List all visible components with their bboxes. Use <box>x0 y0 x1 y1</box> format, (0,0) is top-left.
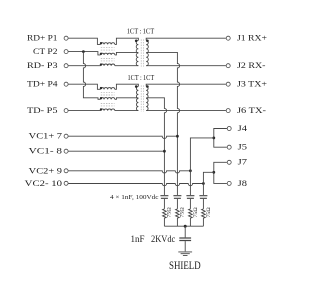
node J7 J8 tie <box>212 171 215 174</box>
wire choke w2 to transformer T1 center tap <box>115 52 139 55</box>
wire CT vertical with hops over P3 P4 <box>83 52 100 100</box>
wire P5 row <box>68 110 100 112</box>
pin J4 <box>227 127 231 131</box>
svg-text:J7: J7 <box>238 157 247 167</box>
svg-text:75Ω: 75Ω <box>168 207 173 218</box>
capacitor C3 <box>186 196 194 199</box>
resistor R2 75ohm <box>176 209 180 226</box>
svg-text:J4: J4 <box>238 123 248 133</box>
ground shield <box>178 252 192 256</box>
svg-text:75Ω: 75Ω <box>181 207 186 218</box>
svg-text:J5: J5 <box>238 142 247 152</box>
svg-text:TD+ P4: TD+ P4 <box>27 79 58 89</box>
pin 10 <box>64 181 68 185</box>
wire T2 secondary top to J3 <box>146 84 226 86</box>
svg-text:SHIELD: SHIELD <box>169 258 201 272</box>
choke T2 core dashes <box>101 93 115 106</box>
wire VC2- row <box>68 184 203 186</box>
svg-text:J8: J8 <box>238 178 247 188</box>
choke T1 winding 3 <box>101 64 115 66</box>
wire P2 row to choke <box>68 52 100 55</box>
capacitor C5 1nF 2KVdc <box>184 226 186 237</box>
transformer U2 core <box>141 85 144 111</box>
svg-text:2KVdc: 2KVdc <box>151 235 175 245</box>
wire choke w3 to transformer T1 bottom <box>115 65 139 67</box>
wire bottom rail <box>164 225 203 227</box>
transformer U1 primary winding <box>136 40 138 65</box>
wire VC2+ row <box>68 171 190 173</box>
wire J7 J8 bracket <box>214 162 227 183</box>
transformer U1 secondary winding <box>146 40 148 65</box>
wire VC1+ row <box>68 136 177 138</box>
transformer U1 core <box>141 39 144 66</box>
svg-text:VC1- 8: VC1- 8 <box>29 146 62 156</box>
node choke dot w1a <box>100 42 102 44</box>
node choke dot w2a <box>100 53 102 55</box>
transformer U2 secondary winding <box>146 86 148 110</box>
pin J8 <box>227 181 231 185</box>
svg-text:1CT : 1CT: 1CT : 1CT <box>127 26 155 35</box>
wire P3 row <box>68 65 100 67</box>
wire rail2 T1 secondary center tap <box>146 52 179 195</box>
resistor R4 75ohm <box>202 209 206 226</box>
wire rail1 T2 secondary center tap <box>146 98 166 195</box>
svg-text:75Ω: 75Ω <box>194 207 199 218</box>
node VC1+ rail2 <box>176 135 179 138</box>
pin P4 <box>64 82 68 86</box>
wire T1 secondary bottom to J2 <box>146 65 226 67</box>
choke T1 winding 1 <box>101 43 115 45</box>
svg-text:VC2- 10: VC2- 10 <box>25 178 62 188</box>
svg-text:RD- P3: RD- P3 <box>27 60 58 70</box>
svg-text:J2 RX-: J2 RX- <box>237 60 266 70</box>
node VC2+ rail3 <box>189 169 192 172</box>
node choke dot w2b <box>100 97 102 99</box>
svg-text:J6 TX-: J6 TX- <box>237 105 266 115</box>
svg-text:1CT : 1CT: 1CT : 1CT <box>128 73 155 82</box>
wire choke to transformer T2 top <box>115 84 139 89</box>
pin 8 <box>64 149 68 153</box>
svg-text:VC1+ 7: VC1+ 7 <box>29 131 62 141</box>
wire T2 secondary bottom to J6 <box>146 110 226 112</box>
svg-text:RD+ P1: RD+ P1 <box>27 33 58 43</box>
pin J6 <box>226 109 230 113</box>
pin J5 <box>227 145 231 149</box>
node T1 secondary dot <box>146 40 149 43</box>
pin J7 <box>227 160 231 164</box>
node VC2- rail4 <box>202 182 205 185</box>
pin J1 <box>226 36 230 40</box>
svg-text:J1 RX+: J1 RX+ <box>237 33 267 43</box>
pin P1 <box>64 36 68 40</box>
wire choke w1 to transformer T1 top <box>115 38 139 44</box>
capacitor C1 <box>160 196 168 199</box>
node T1 primary dot <box>135 40 138 43</box>
node choke dot w1b <box>100 87 102 89</box>
resistor R3 75ohm <box>189 209 193 226</box>
node J4 J5 tie <box>212 137 215 140</box>
choke T2 winding 3 <box>101 109 115 111</box>
pin P5 <box>64 109 68 113</box>
capacitor C2 <box>173 196 181 199</box>
pin 7 <box>64 134 68 138</box>
pin J2 <box>226 64 230 68</box>
wire T1 secondary top to J1 <box>146 38 226 40</box>
svg-text:VC2+ 9: VC2+ 9 <box>29 165 62 175</box>
svg-text:TD- P5: TD- P5 <box>27 105 58 115</box>
pin J3 <box>226 82 230 86</box>
node VC1- rail1 <box>163 150 166 153</box>
svg-text:CT P2: CT P2 <box>33 46 58 56</box>
choke T2 winding 1 <box>101 88 115 90</box>
choke T1 winding 2 <box>101 53 115 55</box>
wire rail3 from J4 J5 tie <box>190 138 213 195</box>
node shield tap <box>184 225 187 228</box>
node T2 secondary dot <box>146 85 149 88</box>
pin P2 <box>64 50 68 54</box>
choke T2 winding 2 <box>101 98 115 100</box>
wire rail4 from J7 J8 tie <box>203 172 213 195</box>
svg-text:1nF: 1nF <box>131 235 145 245</box>
resistor R1 75ohm <box>163 209 167 226</box>
wire choke T2 w3 to transformer T2 bottom <box>115 110 139 112</box>
transformer U2 primary winding <box>136 86 138 110</box>
pin P3 <box>64 64 68 68</box>
wire P4 row to choke <box>68 84 100 89</box>
choke T1 core dashes <box>101 48 115 61</box>
wire P1 row to choke <box>68 38 100 44</box>
capacitor C4 <box>199 196 207 199</box>
node choke dot w3a <box>100 63 102 65</box>
wire J4 J5 bracket <box>214 129 227 148</box>
svg-text:J3 TX+: J3 TX+ <box>237 79 267 89</box>
wire choke T2 w2 to transformer T2 center tap <box>115 98 139 100</box>
node choke dot w3b <box>100 108 102 110</box>
wire VC1- row <box>68 150 164 152</box>
pin 9 <box>64 169 68 173</box>
svg-text:4 × 1nF, 100Vdc: 4 × 1nF, 100Vdc <box>110 195 159 201</box>
node P2 junction <box>82 50 85 53</box>
node T2 primary dot <box>135 85 138 88</box>
svg-text:75Ω: 75Ω <box>207 207 212 218</box>
